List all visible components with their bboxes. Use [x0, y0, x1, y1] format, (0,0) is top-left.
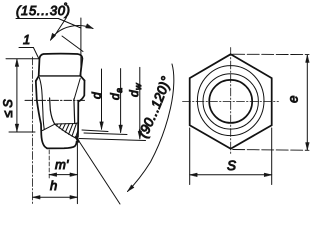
svg-text:d: d [108, 93, 122, 100]
arrowhead right of curved arrow [86, 24, 93, 29]
svg-text:(15...30): (15...30) [16, 3, 71, 18]
svg-text:w: w [133, 83, 143, 90]
chamfer circle [197, 66, 264, 136]
h left extension line (dash-dot) [32, 57, 34, 204]
left face chamfer arc [39, 78, 44, 130]
label d_w rotated [127, 83, 143, 97]
nut cap (crimped collar) outline [39, 54, 83, 76]
vertical centerline [230, 48, 232, 156]
dimension d_a vertical line with arrow [120, 69, 122, 133]
leader from (15...30) shelf to extension line [58, 19, 81, 29]
curved arrow arc of (15...30) [51, 26, 94, 40]
d_w extension line [79, 139, 146, 141]
svg-text:d: d [90, 92, 104, 99]
d_a extension line [84, 133, 127, 135]
arc of (90...120) angle [128, 64, 174, 192]
m-prime left extension line [48, 150, 50, 179]
thread major circle [203, 74, 258, 129]
nut bottom face [47, 142, 77, 149]
inner face boundary right (bore right line) [73, 99, 76, 124]
dimension lessS line with arrows [16, 59, 18, 132]
junction blob [76, 137, 79, 142]
svg-text:d: d [127, 90, 141, 97]
label (90...120) degrees along curve [146, 74, 173, 139]
hexagon outline [190, 54, 272, 149]
angle leg line going down-right [78, 140, 120, 205]
hex body right chamfer slant [81, 76, 85, 81]
e bottom extension line [233, 149, 309, 152]
shared right extension line [76, 142, 78, 204]
m-prime dimension line [49, 174, 77, 176]
angle leg line [62, 36, 83, 52]
leader from label 1 to cap corner [33, 48, 38, 59]
hex body left outer edge [36, 81, 47, 148]
right face chamfer arc [74, 79, 80, 100]
S dimension line [190, 174, 272, 176]
svg-text:≤S: ≤S [1, 96, 15, 117]
hatch strokes [57, 123, 79, 137]
dimension lessS bottom extension line [9, 131, 35, 133]
vertical extension line of angle [80, 18, 82, 77]
S left extension line [189, 128, 191, 185]
svg-text:e: e [286, 95, 301, 103]
bore circle [209, 80, 252, 123]
label d_a rotated [108, 88, 124, 100]
svg-text:°: ° [64, 1, 68, 11]
horizontal centerline [183, 100, 279, 102]
horizontal dash-dot line through nut [25, 99, 86, 101]
steep leader segment with arrowhead [54, 18, 67, 37]
hatch wedge top line [55, 123, 78, 124]
h dimension line [33, 196, 78, 198]
hex body right corner edge and arc to lower edge [78, 81, 85, 138]
svg-text:1: 1 [23, 32, 30, 47]
svg-text:a: a [114, 88, 124, 93]
dimension d_w vertical line with arrow [139, 67, 141, 138]
svg-text:S: S [227, 158, 236, 173]
inner face boundary left (bore left line) [50, 98, 55, 124]
dimension d vertical line with arrow [101, 69, 103, 129]
cap bottom line [40, 75, 80, 77]
S right extension line [271, 128, 273, 185]
left chamfer line of bore [43, 124, 55, 130]
label (15...30) degrees with shelf [16, 1, 71, 19]
hatch wedge chamfer curve [55, 124, 77, 139]
label 1 with shelf [19, 32, 33, 48]
e top extension line [233, 53, 309, 55]
arrowhead of (90...120) arc [128, 185, 135, 192]
svg-text:h: h [50, 178, 57, 193]
d extension line [82, 130, 108, 132]
e dimension line [306, 55, 308, 150]
hex body left chamfer slant [36, 76, 39, 81]
svg-text:m': m' [55, 157, 69, 172]
dimension lessS top extension line [6, 58, 40, 60]
